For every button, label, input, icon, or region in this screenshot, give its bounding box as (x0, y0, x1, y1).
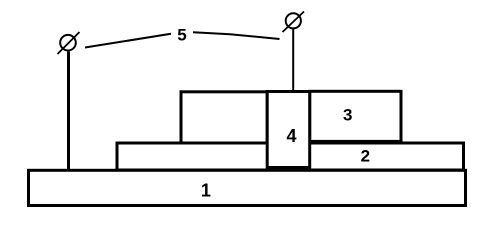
upper-left block (181, 92, 267, 143)
svg-text:4: 4 (286, 126, 296, 146)
svg-text:3: 3 (343, 106, 352, 125)
left electrode lead wire (67, 52, 70, 171)
right terminal slash (283, 12, 305, 33)
layer block 2 (117, 143, 464, 170)
leader line right of label 5 (193, 32, 280, 39)
block 3 (310, 91, 401, 141)
right terminal circle (286, 13, 301, 28)
left terminal circle (60, 35, 76, 51)
left terminal slash (58, 32, 80, 54)
svg-text:5: 5 (177, 26, 186, 45)
block 4 (267, 92, 310, 168)
svg-text:2: 2 (361, 147, 370, 166)
right electrode lead wire (292, 29, 294, 92)
substrate block 1 (29, 170, 466, 205)
svg-text:1: 1 (201, 181, 211, 201)
leader line left of label 5 (85, 34, 171, 48)
